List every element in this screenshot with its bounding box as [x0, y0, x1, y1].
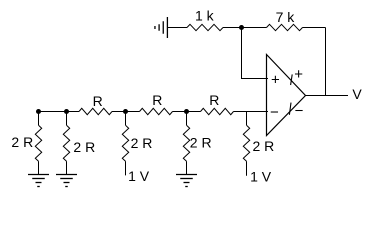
resistor R (c)	[201, 108, 234, 114]
wire node to 2R #3	[125, 112, 127, 126]
wire Rc to op-amp input	[234, 111, 269, 113]
wire node to 2R #4	[186, 112, 188, 126]
svg-text:V: V	[352, 86, 362, 102]
resistor 2 R #4	[183, 125, 189, 161]
junction dot node4	[184, 109, 189, 114]
wire 2R #4 to ground	[186, 161, 188, 174]
wire bus node1-node2	[39, 111, 67, 113]
junction dot node3	[123, 109, 128, 114]
junction dot node2	[64, 109, 69, 114]
svg-text:R: R	[152, 92, 162, 108]
svg-text:2 R: 2 R	[253, 138, 275, 154]
resistor 2 R #1	[35, 125, 41, 161]
wire 2R #5 to 1V terminal	[246, 161, 248, 175]
wire ground to R1k	[167, 27, 187, 29]
svg-text:R: R	[209, 92, 219, 108]
svg-text:−: −	[270, 104, 279, 121]
svg-text:1 V: 1 V	[128, 168, 150, 184]
svg-text:2 R: 2 R	[131, 135, 153, 151]
op-amp top supply tick	[291, 74, 293, 85]
op-amp U1 triangle	[267, 55, 306, 136]
node junction dot (1k/7k)	[239, 25, 244, 30]
resistor 2 R #3	[122, 125, 128, 161]
junction dot node1	[36, 109, 41, 114]
wire 2R #3 to 1V terminal	[125, 161, 127, 175]
wire Ra to node3	[112, 111, 126, 113]
svg-text:2 R: 2 R	[73, 139, 95, 155]
ground #4	[176, 175, 197, 187]
resistor R (a)	[79, 108, 112, 114]
svg-text:R: R	[93, 93, 103, 109]
svg-text:1 k: 1 k	[195, 8, 215, 24]
ground (top-left, sideways)	[155, 17, 167, 38]
wire 2R #2 to ground	[66, 161, 68, 174]
wire node2 to Ra	[67, 111, 80, 113]
wire 2R #1 to ground	[38, 161, 40, 174]
ground #1	[28, 175, 49, 187]
svg-text:+: +	[294, 66, 303, 83]
svg-text:7 k: 7 k	[276, 9, 296, 25]
wire feedback down to output	[325, 28, 327, 96]
svg-text:−: −	[295, 103, 304, 120]
wire R7k to corner	[303, 27, 326, 29]
resistor 7 k (zigzag)	[267, 24, 303, 30]
resistor 1 k (zigzag)	[187, 24, 223, 30]
wire node3 to Rb	[126, 111, 140, 113]
wire node to 2R #1	[38, 112, 40, 126]
wire node to R7k	[242, 27, 267, 29]
ground #2	[56, 175, 77, 187]
wire node to 2R #5	[246, 112, 248, 126]
svg-text:2 R: 2 R	[11, 134, 33, 150]
wire node down to op-amp input	[242, 28, 269, 79]
wire Rb to node4	[173, 111, 187, 113]
svg-text:2 R: 2 R	[190, 135, 212, 151]
resistor 2 R #5	[243, 125, 249, 161]
wire R1k to node	[223, 27, 242, 29]
resistor 2 R #2	[63, 125, 69, 161]
svg-text:+: +	[271, 71, 280, 88]
wire node4 to Rc	[187, 111, 201, 113]
wire op-amp output	[306, 95, 349, 97]
op-amp bottom supply tick	[289, 103, 291, 115]
resistor R (b)	[140, 108, 173, 114]
svg-text:1 V: 1 V	[250, 169, 272, 185]
wire node to 2R #2	[66, 112, 68, 126]
